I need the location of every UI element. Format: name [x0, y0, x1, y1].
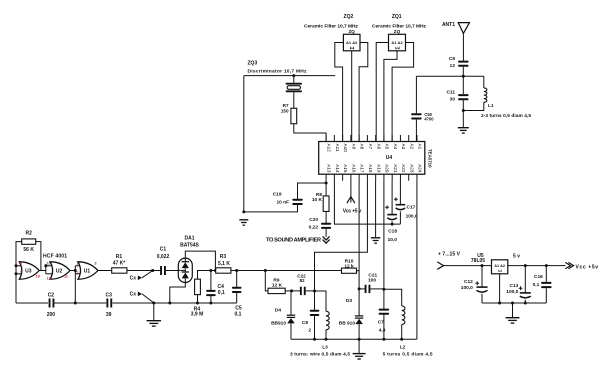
capacitor C19 — [292, 199, 303, 205]
op-amp U4 TEA5710 body — [319, 142, 425, 175]
svg-text:A20: A20 — [385, 164, 390, 173]
capacitor C2 — [49, 299, 55, 308]
junction U3 input bottom — [15, 272, 18, 275]
svg-text:A8: A8 — [360, 144, 365, 150]
svg-text:0,1: 0,1 — [235, 312, 242, 318]
wire C18 to rail — [391, 221, 393, 224]
wire C16 to psu rail — [545, 288, 547, 303]
ceramic filter ZQ1 — [389, 29, 406, 51]
svg-text:A24: A24 — [418, 164, 423, 173]
ceramic filter ZQ2 — [343, 29, 360, 51]
wire C16 down — [545, 266, 547, 282]
wire U2 input stub top — [46, 265, 53, 267]
svg-text:A7: A7 — [368, 144, 373, 150]
svg-text:L1: L1 — [488, 103, 494, 109]
junction R9 tap — [264, 269, 267, 272]
junction antenna tank node — [462, 75, 465, 78]
svg-text:47 K*: 47 K* — [113, 261, 126, 267]
junction L2 rail — [400, 338, 403, 341]
svg-text:BB 910: BB 910 — [339, 320, 356, 326]
wire U5 ground pin — [499, 274, 501, 303]
junction DA1 R3 node — [214, 269, 217, 272]
wire C20 to output arrow — [325, 228, 327, 236]
svg-text:Σ: Σ — [350, 46, 356, 49]
junction R1 C1 Cx node — [151, 269, 154, 272]
wire U4 pin A14 to cap rail — [334, 181, 400, 224]
junction U5 gnd rail — [498, 302, 501, 305]
svg-text:A16: A16 — [351, 164, 356, 173]
svg-text:Σ: Σ — [395, 46, 401, 49]
wire bottom rail segment 1 — [16, 302, 48, 304]
wire C5 tap down — [236, 271, 238, 288]
Vcc +5v arrow at U4 — [347, 197, 355, 204]
ground at discriminator — [239, 220, 248, 225]
inductor L2 — [402, 306, 405, 325]
wire U3 output to U2 input — [39, 270, 46, 272]
resistor R1 — [112, 268, 127, 273]
wire U4 pin A21 to C18 — [391, 181, 393, 215]
ground at tank rail — [353, 354, 366, 359]
wire L1 to C11 node — [463, 102, 484, 110]
wire node to C21 left — [359, 288, 364, 290]
wire R4 to ground rail — [197, 295, 199, 303]
junction D3 ground rail — [358, 338, 361, 341]
wire ground node to C19 — [244, 204, 298, 212]
wire C21 to A20 net — [371, 288, 384, 290]
svg-text:D4: D4 — [275, 308, 281, 314]
wire U4 pin A20 down to C21 right node — [383, 181, 385, 290]
svg-text:C18: C18 — [388, 229, 397, 235]
junction U3 input top — [15, 264, 18, 267]
svg-text:0,22: 0,22 — [309, 224, 319, 230]
junction Cx ground rail — [152, 302, 155, 305]
svg-text:A5: A5 — [385, 144, 390, 150]
svg-text:ZQ3: ZQ3 — [248, 61, 258, 67]
svg-text:A1: A1 — [418, 144, 423, 150]
wire rail to ground stem — [153, 303, 155, 320]
wire R3 right net — [231, 270, 342, 272]
wire DA1 top to R3 node — [185, 251, 215, 270]
voltage regulator U5 — [492, 260, 508, 274]
junction C12 tap — [481, 264, 484, 267]
junction C11 L1 node — [462, 109, 465, 112]
wire node to C7 — [383, 289, 385, 309]
svg-text:100,0: 100,0 — [506, 289, 518, 295]
wire C13 down — [524, 266, 526, 293]
svg-text:A10: A10 — [343, 144, 348, 153]
svg-text:A3: A3 — [401, 144, 406, 150]
svg-text:82: 82 — [299, 278, 305, 283]
wire D3 top — [358, 289, 360, 316]
U4 top pin stubs — [326, 135, 417, 142]
svg-text:A1 A2: A1 A2 — [391, 40, 403, 45]
svg-text:A15: A15 — [343, 164, 348, 173]
wire C12 to psu rail — [481, 294, 483, 303]
capacitor C20 — [321, 223, 331, 229]
capacitor C22 — [300, 287, 306, 295]
junction C4 tap — [209, 269, 212, 272]
inductor L1 — [484, 88, 487, 102]
junction C8 rail — [313, 338, 316, 341]
junction C4 rail — [209, 302, 212, 305]
svg-text:R3: R3 — [220, 254, 227, 260]
wire U2 input stub bottom — [46, 273, 53, 275]
svg-text:A23: A23 — [409, 164, 414, 173]
wire U1 input stub bottom — [75, 273, 80, 275]
wire tank node horizontal — [416, 75, 483, 77]
resistor R9 — [268, 288, 285, 293]
svg-text:A4: A4 — [393, 144, 398, 150]
junction L3 rail — [325, 338, 328, 341]
svg-text:100,0: 100,0 — [406, 213, 418, 219]
wire C12 down — [481, 266, 483, 287]
capacitor C5 — [232, 287, 242, 293]
resistor R3 — [216, 268, 231, 273]
wire U5 output to Vcc — [508, 265, 566, 267]
logic gate U1 — [78, 262, 98, 279]
svg-text:ZQ: ZQ — [349, 29, 356, 34]
wire tank node down to C50 — [415, 76, 417, 113]
capacitor C18 — [385, 205, 397, 219]
junction U2 input — [44, 264, 47, 267]
svg-text:0,1: 0,1 — [533, 282, 540, 288]
power input arrow — [437, 262, 443, 269]
svg-text:A6: A6 — [376, 144, 381, 150]
svg-text:A17: A17 — [360, 164, 365, 173]
svg-text:C19: C19 — [273, 192, 282, 198]
wire ZQ2 pin A2 to U4 pin A8 — [359, 43, 368, 142]
capacitor C1 — [160, 266, 166, 275]
logic gate U3 — [19, 262, 39, 279]
junction C18 rail — [391, 223, 394, 226]
svg-text:5,1 K: 5,1 K — [218, 261, 230, 267]
wire node to C8 — [314, 291, 316, 310]
wire U4 pin A19 to ground — [375, 181, 377, 238]
svg-text:D3: D3 — [346, 298, 352, 304]
wire U3 input stub top — [16, 265, 22, 267]
wire C17 to rail end — [399, 211, 401, 224]
junction C7 rail — [382, 338, 385, 341]
U4 top pin labels A12-A1 — [327, 144, 423, 153]
svg-text:A14: A14 — [335, 164, 340, 173]
wire R9 tap down — [265, 271, 268, 291]
capacitor C21 — [365, 285, 371, 293]
wire rail ground stem — [358, 339, 360, 353]
antenna ANT1 — [458, 23, 469, 61]
wire node to C19 top — [298, 183, 327, 200]
ceramic resonator ZQ3 — [286, 83, 302, 92]
wire C7 to tank rail — [383, 314, 385, 339]
wire C13 to psu rail — [524, 300, 526, 303]
svg-text:+ 7...15 V: + 7...15 V — [438, 252, 461, 258]
wire U4 pin A17 down to varactor node — [358, 181, 360, 289]
wire R2 left to input bus — [16, 242, 22, 303]
svg-text:A13: A13 — [327, 164, 332, 173]
wire U1 input stub top — [75, 265, 80, 267]
svg-text:A19: A19 — [376, 164, 381, 173]
svg-text:A21: A21 — [393, 164, 398, 173]
wire U1 output to R1 — [98, 270, 112, 272]
capacitor C3 — [106, 299, 112, 308]
inductor L3 — [326, 311, 329, 329]
switch contact Cx upper — [138, 271, 153, 281]
wire ZQ1 pin A1 to U4 pin A6 — [376, 43, 388, 142]
junction R4 rail — [196, 302, 199, 305]
capacitor C50 — [411, 113, 422, 119]
wire U4 pin A16 Vcc stub — [350, 181, 352, 203]
svg-text:ZQ1: ZQ1 — [392, 14, 402, 20]
junction C21 C7 L2 node — [382, 288, 385, 291]
wire U3 input stub bottom — [16, 273, 22, 275]
svg-text:ANT1: ANT1 — [442, 22, 455, 28]
svg-text:100,0: 100,0 — [461, 285, 473, 291]
wire U4 pin A13 down — [325, 181, 327, 197]
svg-text:2-3 turns 0,5 diam 4,5: 2-3 turns 0,5 diam 4,5 — [481, 113, 531, 119]
svg-text:A9: A9 — [351, 144, 356, 150]
wire bottom rail segment 2 — [55, 302, 107, 304]
capacitor C13 — [519, 286, 531, 298]
svg-text:39: 39 — [106, 312, 112, 318]
wire R10 right to A17 net — [357, 270, 360, 272]
junction U1 input — [74, 269, 77, 272]
ground below C11 — [458, 128, 469, 133]
varactor D3 — [355, 316, 363, 324]
wire discriminator node horizontal — [244, 75, 335, 77]
resistor R10 — [342, 268, 357, 273]
svg-text:TO SOUND AMPLIFIER: TO SOUND AMPLIFIER — [266, 238, 321, 244]
svg-text:10 nF: 10 nF — [276, 199, 289, 205]
capacitor C6 — [458, 61, 469, 67]
wire tank ground rail — [291, 338, 417, 340]
varactor D4 — [287, 315, 295, 323]
junction ZQ3 ground node — [242, 210, 245, 213]
wire R8 to C20 — [325, 211, 327, 223]
svg-text:C16: C16 — [534, 274, 543, 280]
wire tank node to C11 — [462, 76, 464, 94]
svg-text:5 turns 0,5 diam 4,5: 5 turns 0,5 diam 4,5 — [383, 351, 433, 357]
U4 bottom pin stubs — [326, 174, 417, 181]
svg-text:0,022: 0,022 — [157, 254, 170, 260]
junction C5 tap — [235, 269, 238, 272]
wire R7 to U4 pin A12 — [294, 124, 326, 142]
svg-text:A1 A2: A1 A2 — [494, 264, 505, 268]
svg-text:U1: U1 — [84, 268, 91, 274]
svg-text:R7: R7 — [283, 103, 289, 108]
svg-text:C3: C3 — [105, 292, 112, 298]
capacitor C17 — [394, 197, 405, 209]
wire L2 to tank rail — [401, 325, 403, 340]
svg-text:C20: C20 — [309, 217, 318, 223]
wire D4 bottom to tank rail — [290, 323, 292, 339]
wire psu ground rail — [482, 302, 546, 304]
junction psu ground stem — [511, 302, 514, 305]
wire C4 tap down — [210, 271, 212, 291]
svg-text:C13: C13 — [509, 283, 518, 289]
svg-text:3 turns: wire 0,5 diam 4,5: 3 turns: wire 0,5 diam 4,5 — [290, 351, 350, 357]
svg-text:C6: C6 — [449, 56, 455, 62]
svg-text:R2: R2 — [25, 230, 32, 236]
Vcc output arrow — [565, 262, 573, 268]
wire D4 top — [290, 291, 292, 315]
svg-text:R1: R1 — [116, 254, 123, 260]
wire U4 pin A22 to C17 — [399, 181, 401, 205]
svg-text:A11: A11 — [335, 144, 340, 152]
capacitor C11 — [458, 94, 469, 100]
svg-text:C1: C1 — [160, 246, 167, 252]
svg-text:U2: U2 — [56, 268, 63, 274]
wire ZQ2 pin A1 to U4 pin A10 — [335, 43, 344, 142]
svg-text:A22: A22 — [401, 164, 406, 173]
svg-text:0,1: 0,1 — [218, 290, 225, 296]
ground at U4 pin A19 — [371, 238, 381, 243]
ground at power supply — [506, 318, 520, 323]
logic gate U2 — [50, 262, 70, 279]
wire U4 pin A24 down to tank ground rail — [416, 181, 418, 340]
svg-text:2: 2 — [308, 327, 311, 333]
svg-text:4,3: 4,3 — [379, 328, 386, 334]
resistor R2 — [22, 239, 36, 244]
svg-text:A18: A18 — [368, 164, 373, 173]
svg-text:100: 100 — [368, 277, 376, 283]
wire C11 to ground — [462, 100, 464, 127]
wire node to L3 top — [315, 291, 327, 311]
wire C4 to rail — [210, 296, 212, 303]
wire R2 right to U3 output net — [36, 242, 41, 271]
wire U1 input bus to bottom rail — [74, 274, 76, 303]
svg-text:10,0: 10,0 — [388, 237, 398, 243]
arrow to sound amplifier — [323, 236, 330, 243]
svg-text:L3: L3 — [322, 344, 328, 350]
svg-text:10 K: 10 K — [312, 197, 323, 203]
svg-text:C11: C11 — [446, 89, 455, 95]
svg-text:L2: L2 — [400, 344, 406, 350]
wire bottom rail segment 3 — [112, 302, 236, 304]
wire C6 to antenna node — [462, 67, 464, 76]
junction discriminator node — [292, 74, 295, 77]
svg-text:C7: C7 — [378, 319, 384, 325]
svg-text:A2: A2 — [409, 144, 414, 150]
svg-text:30: 30 — [450, 96, 456, 102]
junction DA1 bottom rail — [168, 302, 171, 305]
svg-text:C2: C2 — [48, 292, 55, 298]
svg-text:C17: C17 — [407, 204, 416, 210]
capacitor C4 — [206, 290, 216, 296]
wire node to ZQ3 resonator — [293, 76, 295, 83]
wire node to L2 top — [384, 289, 402, 306]
svg-text:HCF 4001: HCF 4001 — [43, 253, 67, 259]
svg-text:A1 A2: A1 A2 — [346, 40, 358, 45]
wire DA1 bottom to ground rail — [170, 283, 186, 304]
svg-text:A12: A12 — [327, 144, 332, 153]
wire U2 input bus — [45, 266, 47, 274]
wire D3 bottom to tank rail — [358, 324, 360, 339]
svg-text:3,9 M: 3,9 M — [191, 312, 204, 318]
svg-text:200: 200 — [47, 312, 56, 318]
wire psu ground stem — [512, 303, 514, 317]
wire U1 input bus — [74, 266, 76, 274]
svg-text:DA1: DA1 — [184, 235, 194, 241]
U4 bottom pin labels A13-A24 — [327, 164, 423, 173]
svg-text:ZQ2: ZQ2 — [344, 14, 354, 20]
svg-text:U4: U4 — [386, 155, 393, 161]
wire L3 to tank rail — [325, 330, 327, 340]
wire U2 output to U1 input — [70, 270, 75, 272]
junction U1 inputs rail — [74, 302, 77, 305]
wire ZQ2 center pin to U4 pin A9 — [351, 51, 353, 142]
wire discriminator left leg to ground — [243, 76, 245, 212]
wire ZQ3 to R7 — [293, 92, 295, 108]
svg-text:12: 12 — [450, 63, 456, 69]
wire ZQ1 pin A2 to U4 pin A4 — [392, 43, 414, 142]
resistor R4 — [195, 279, 201, 295]
wire R4 top to R3 node — [198, 271, 216, 280]
junction R9 D4 node — [290, 289, 293, 292]
junction C13 rail — [524, 302, 527, 305]
svg-text:56 K: 56 K — [23, 247, 34, 253]
wire C22 to A18 node — [306, 290, 315, 292]
wire C8 to tank rail — [314, 316, 316, 340]
wire tank node to L1 — [483, 76, 485, 88]
svg-text:Cx: Cx — [130, 292, 137, 298]
wire R1 to C1 — [127, 270, 160, 272]
capacitor C12 — [475, 281, 487, 292]
svg-text:10: 10 — [36, 274, 40, 279]
resistor R8 — [323, 196, 329, 212]
svg-text:150: 150 — [281, 109, 289, 114]
diode DA1 BAT54S — [178, 258, 192, 282]
junction C22 C8 L3 node — [313, 290, 316, 293]
svg-text:Discriminator 10,7 MHz: Discriminator 10,7 MHz — [248, 69, 308, 75]
junction R10 C21 D3 node — [358, 287, 361, 290]
capacitor C7 — [379, 309, 390, 315]
svg-text:BB910: BB910 — [271, 320, 286, 326]
junction C16 tap — [545, 264, 548, 267]
wire C1 to DA1 — [166, 270, 178, 272]
svg-text:5 v: 5 v — [513, 254, 520, 260]
switch contact Cx lower — [138, 292, 154, 303]
svg-text:Cx: Cx — [130, 276, 137, 282]
svg-text:BAT54S: BAT54S — [180, 242, 199, 248]
wire C5 to rail end — [236, 293, 238, 304]
svg-text:Vcc +5v: Vcc +5v — [576, 264, 599, 270]
svg-text:TEA5710: TEA5710 — [427, 149, 432, 168]
svg-text:78L05: 78L05 — [471, 258, 485, 264]
svg-text:4700: 4700 — [424, 117, 434, 122]
svg-text:ZQ: ZQ — [394, 29, 401, 34]
wire U4 pin A18 jog to tank node — [315, 181, 368, 291]
capacitor C8 — [310, 310, 320, 316]
svg-text:12 K: 12 K — [272, 282, 283, 288]
svg-text:C12: C12 — [464, 279, 473, 285]
svg-text:Σ: Σ — [498, 269, 503, 272]
capacitor C16 — [541, 282, 552, 288]
wire ZQ1 center pin to U4 pin A5 — [384, 51, 397, 142]
ground at oscillator rail — [147, 321, 162, 326]
resistor R7 — [291, 108, 297, 124]
junction C13 tap — [524, 264, 527, 267]
wire C50 to U4 pin A1 — [415, 120, 418, 142]
wire power input to U5 — [444, 265, 492, 267]
junction A13 C19 node — [325, 182, 328, 185]
wire R9 to C22 — [285, 290, 300, 292]
svg-text:R8: R8 — [316, 192, 322, 198]
svg-text:C8: C8 — [302, 320, 308, 326]
svg-text:U3: U3 — [25, 268, 32, 274]
